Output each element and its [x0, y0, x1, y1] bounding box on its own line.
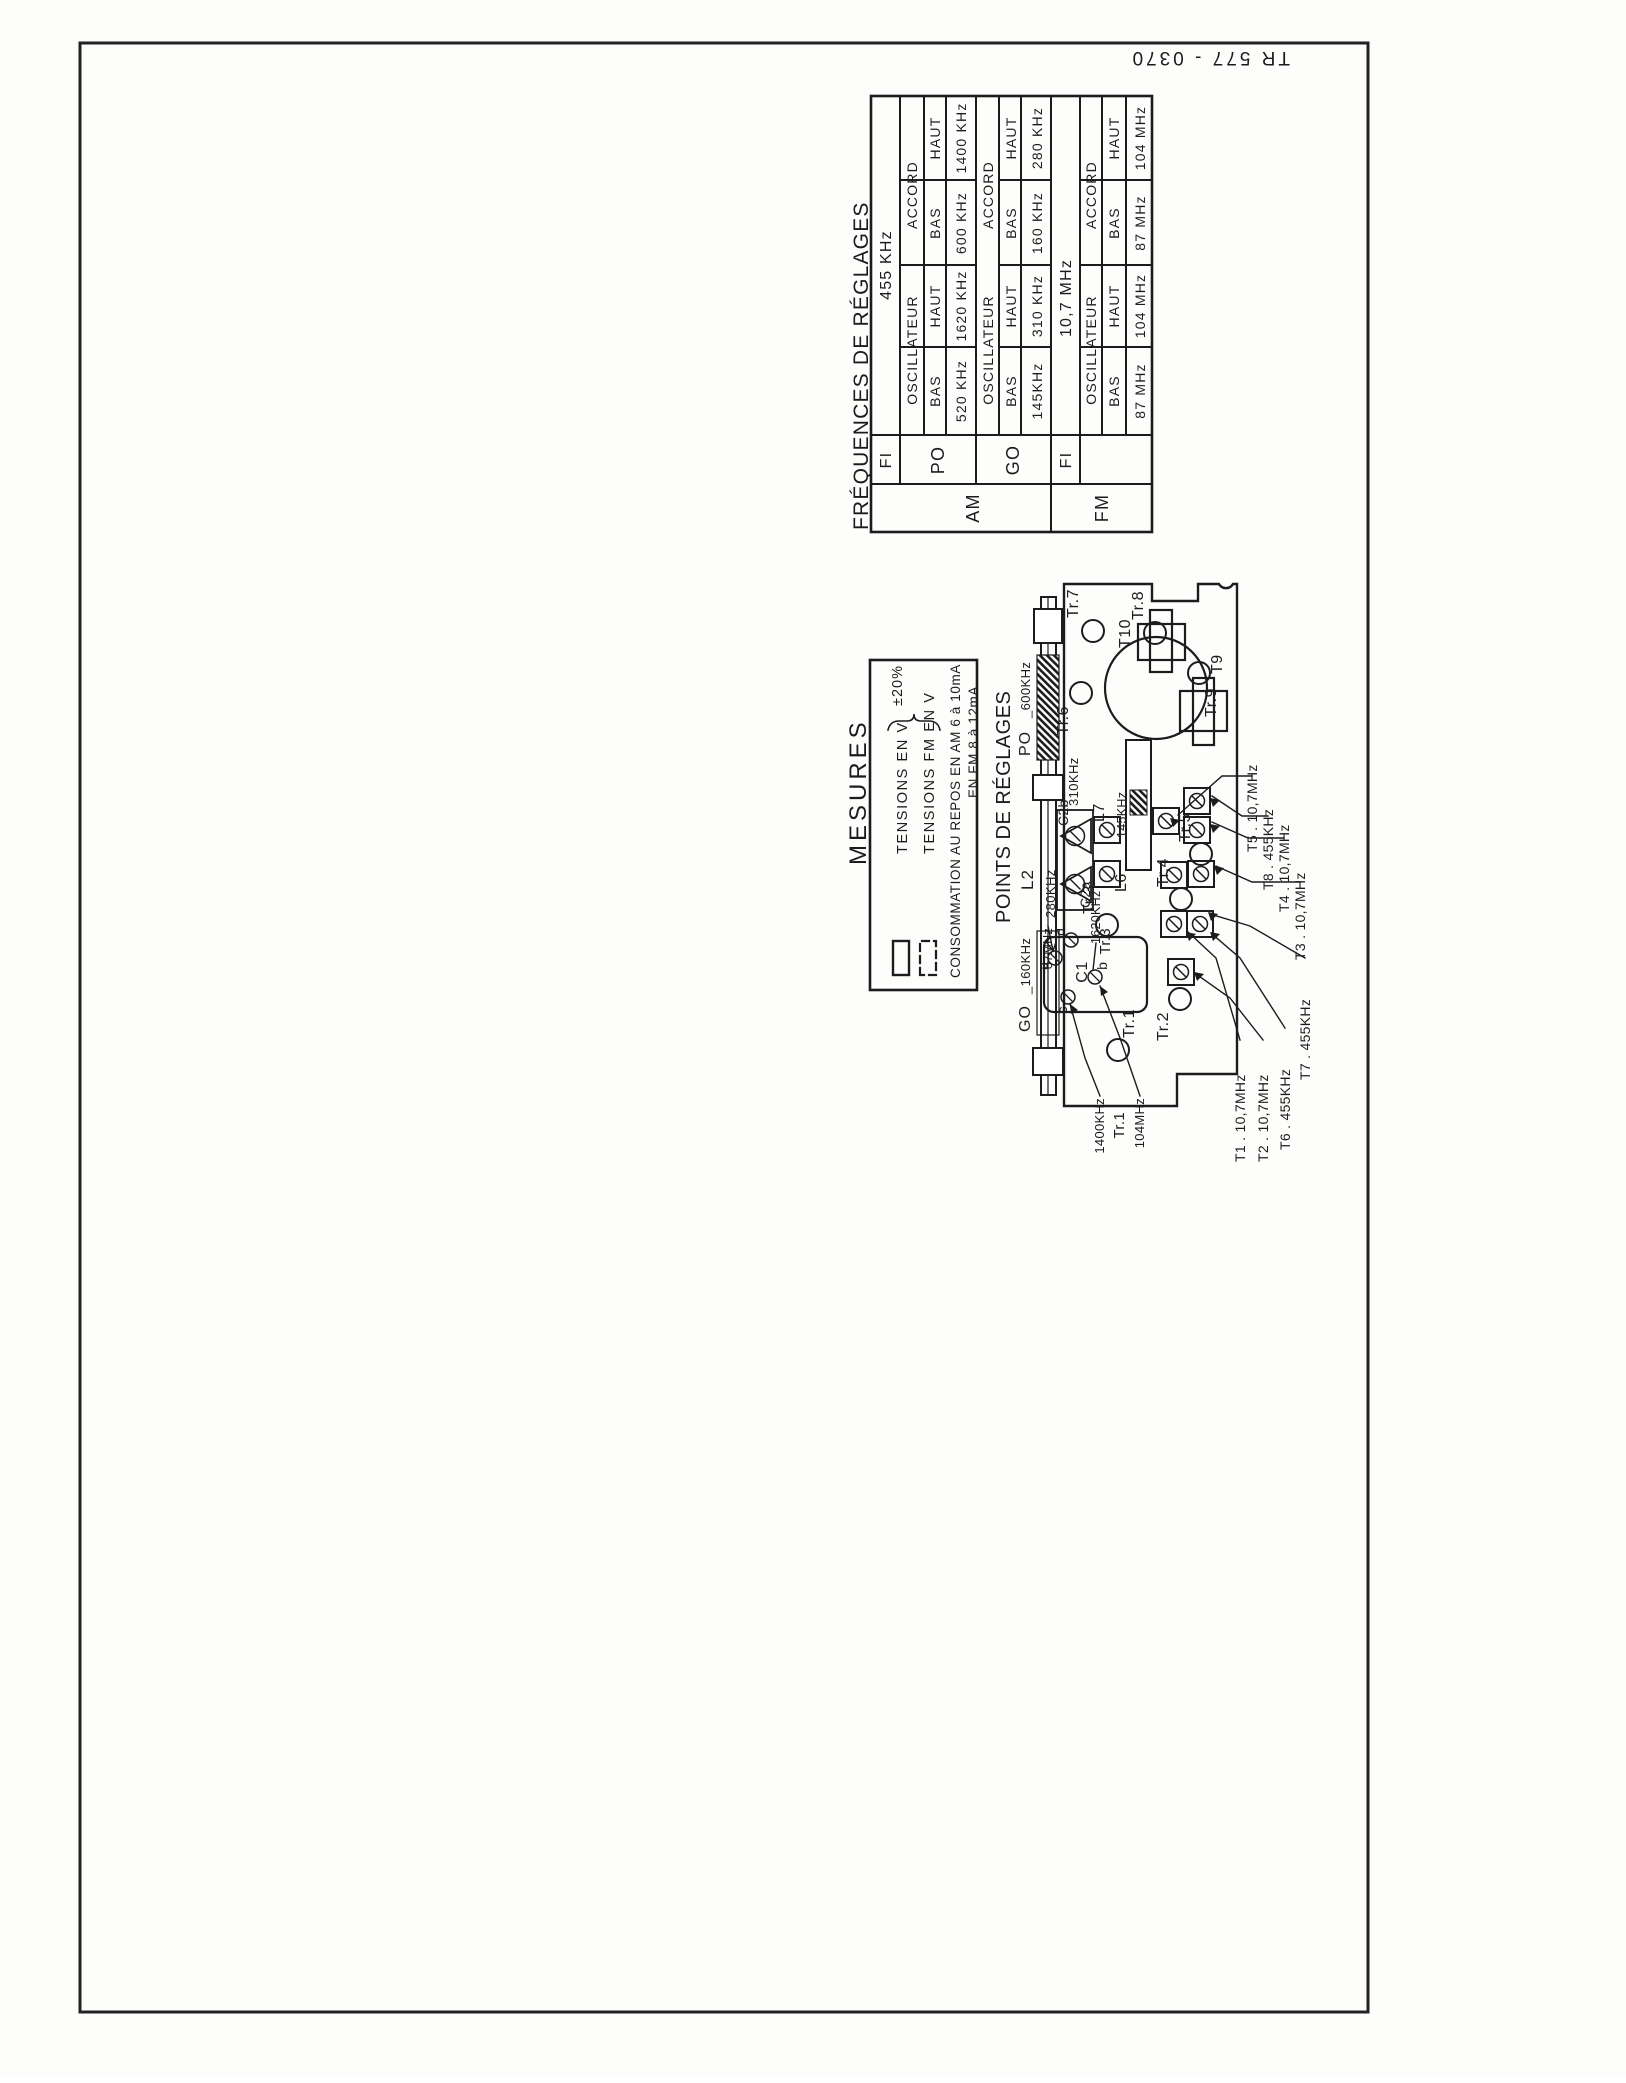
svg-text:T10: T10 [1117, 619, 1134, 648]
pcb 87MHz arrow [1047, 926, 1056, 951]
table line [1080, 346, 1152, 348]
svg-text:_600KHz: _600KHz [1018, 662, 1033, 719]
pcb trimmer T5 [1153, 808, 1179, 834]
table line [998, 96, 1000, 435]
svg-text:1400KHz: 1400KHz [1092, 1098, 1107, 1154]
pcb trimmer C2a [1061, 867, 1091, 901]
table line [975, 96, 977, 484]
table frame [871, 96, 1152, 532]
svg-text:Tr.6: Tr.6 [1055, 706, 1072, 735]
svg-text:_160KHz: _160KHz [1018, 938, 1033, 995]
pcb callout line T2 [1196, 974, 1263, 1040]
svg-text:T7 . 455KHz: T7 . 455KHz [1297, 999, 1313, 1080]
svg-text:Tr.9: Tr.9 [1203, 688, 1220, 717]
legend box [870, 660, 977, 990]
pcb callout line T5 [1178, 776, 1252, 815]
pcb callout line T6 [1212, 934, 1285, 1028]
table line [1080, 179, 1152, 181]
svg-text:T2 . 10,7MHz: T2 . 10,7MHz [1255, 1074, 1271, 1162]
table line [945, 96, 947, 435]
svg-text:HAUT: HAUT [1003, 117, 1019, 160]
legend solid symbol [893, 941, 909, 975]
svg-text:AM: AM [963, 493, 983, 522]
pcb rod coil PO [1037, 655, 1059, 760]
svg-text:TENSIONS FM EN V: TENSIONS FM EN V [922, 691, 938, 854]
svg-text:1620 KHz: 1620 KHz [953, 270, 969, 341]
svg-text:1400 KHz: 1400 KHz [953, 102, 969, 173]
pcb rod clamp [1033, 1048, 1063, 1075]
pcb board outline [1064, 584, 1237, 1106]
svg-text:±20%: ±20% [890, 665, 906, 706]
svg-text:BAS: BAS [1003, 375, 1019, 407]
pcb trimmer T2t [1168, 959, 1194, 985]
legend brace [888, 714, 940, 730]
table line [999, 346, 1051, 348]
pcb tuning rod [1041, 597, 1056, 1095]
pcb trimmer block C1 [1043, 1011, 1045, 1013]
pcb callout arrow T7 [1208, 912, 1218, 921]
table line [900, 346, 976, 348]
svg-text:145KHz: 145KHz [1029, 362, 1045, 419]
svg-text:L2: L2 [1018, 869, 1037, 890]
pcb callout arrow T4 [1210, 824, 1220, 833]
pcb trimmer C1a [1048, 951, 1062, 965]
svg-text:BAS: BAS [927, 375, 943, 407]
svg-text:FRÉQUENCES DE RÉGLAGES: FRÉQUENCES DE RÉGLAGES [850, 201, 873, 530]
pcb callout line T7 [1210, 914, 1305, 958]
svg-text:Tr.7: Tr.7 [1065, 589, 1082, 618]
pcb speaker hole [1105, 637, 1207, 739]
svg-text:FI: FI [878, 452, 895, 469]
pcb 1620 arrow [1093, 943, 1096, 970]
svg-text:160 KHz: 160 KHz [1029, 192, 1045, 254]
pcb trimmer T7 [1187, 911, 1213, 937]
svg-text:87 MHz: 87 MHz [1132, 363, 1148, 418]
table line [899, 96, 901, 484]
svg-text:T1 . 10,7MHz: T1 . 10,7MHz [1232, 1074, 1248, 1162]
pcb dial window [1126, 740, 1151, 870]
pcb rod end [1034, 609, 1062, 643]
pcb trimmer L7 [1094, 817, 1120, 843]
svg-text:TR 577 - 0370: TR 577 - 0370 [1130, 47, 1290, 68]
svg-text:MESURES: MESURES [845, 718, 872, 865]
svg-text:BAS: BAS [927, 207, 943, 239]
pcb hole Tr.6 [1070, 682, 1092, 704]
pcb hole Tr.4 [1170, 888, 1192, 910]
svg-text:Tr.8: Tr.8 [1130, 591, 1147, 620]
table line [923, 96, 925, 435]
pcb trimmer block C1 box [1044, 937, 1147, 1012]
svg-text:T8 . 455KHz: T8 . 455KHz [1260, 809, 1276, 890]
pcb callout line 1400KHz [1070, 1004, 1100, 1096]
table line [900, 264, 976, 266]
svg-text:10,7 MHz: 10,7 MHz [1058, 259, 1075, 337]
svg-text:T9: T9 [1209, 654, 1226, 674]
svg-text:OSCILLATEUR: OSCILLATEUR [1083, 295, 1099, 404]
svg-text:600 KHz: 600 KHz [953, 192, 969, 254]
svg-text:Tr.2: Tr.2 [1155, 1012, 1172, 1041]
svg-text:104 MHz: 104 MHz [1132, 274, 1148, 338]
table line [999, 264, 1051, 266]
pcb callout arrow [1070, 1004, 1078, 1014]
pcb hole Tr.2 [1169, 988, 1191, 1010]
svg-text:T5 . 10,7MHz: T5 . 10,7MHz [1244, 764, 1260, 852]
svg-text:Tr.1: Tr.1 [1121, 1009, 1138, 1038]
table line [1050, 96, 1052, 532]
svg-text:PO: PO [1017, 731, 1034, 756]
svg-text:HAUT: HAUT [1106, 117, 1122, 160]
pcb trimmer C2b [1061, 819, 1091, 853]
svg-text:520 KHz: 520 KHz [953, 360, 969, 422]
pcb trimmer Tr5a [1161, 862, 1187, 888]
table line [900, 179, 976, 181]
legend dashed symbol [920, 941, 936, 975]
svg-text:TENSIONS EN V: TENSIONS EN V [895, 721, 911, 854]
pcb rod clamp [1033, 775, 1063, 800]
table line [871, 483, 1152, 485]
svg-text:310KHz: 310KHz [1066, 757, 1081, 806]
svg-text:HAUT: HAUT [927, 285, 943, 328]
svg-text:T6 . 455KHz: T6 . 455KHz [1277, 1069, 1293, 1150]
table line [871, 434, 1152, 436]
pcb callout arrow T8 [1210, 798, 1220, 807]
svg-text:c: c [1054, 1007, 1070, 1014]
pcb callout line 104MHz [1100, 986, 1140, 1096]
svg-text:FI: FI [1058, 452, 1075, 469]
pcb trimmer C1c [1061, 990, 1075, 1004]
table line [1020, 96, 1022, 435]
svg-text:GO: GO [1017, 1005, 1034, 1032]
pcb rod line [1047, 597, 1049, 1095]
svg-text:87 MHz: 87 MHz [1132, 195, 1148, 250]
pcb callout arrow T2 [1194, 972, 1204, 981]
svg-text:FM: FM [1092, 494, 1112, 522]
svg-text:455 KHz: 455 KHz [878, 230, 895, 300]
svg-text:OSCILLATEUR: OSCILLATEUR [980, 295, 996, 404]
svg-text:BAS: BAS [1003, 207, 1019, 239]
pcb callout line T4 [1212, 822, 1284, 838]
pcb hole Tr.7 [1082, 620, 1104, 642]
svg-text:EN FM 8 à 12mA: EN FM 8 à 12mA [966, 686, 981, 798]
svg-text:CONSOMMATION AU REPOS EN AM 6: CONSOMMATION AU REPOS EN AM 6 à 10mA [948, 664, 963, 978]
svg-text:ACCORD: ACCORD [980, 161, 996, 229]
pcb callout arrow T3 [1214, 866, 1224, 875]
svg-text:C2b: C2b [1055, 799, 1071, 826]
svg-text:280 KHz: 280 KHz [1029, 107, 1045, 169]
pcb transformer T9 [1180, 691, 1227, 731]
pcb hole Tr.3 [1096, 914, 1118, 936]
pcb hole Tr.9 [1188, 662, 1210, 684]
svg-text:L7: L7 [1091, 803, 1108, 822]
pcb callout arrow T1 [1186, 932, 1196, 941]
svg-text:ACCORD: ACCORD [904, 161, 920, 229]
pcb callout line T8 [1212, 796, 1268, 816]
pcb rod coil GO [1037, 931, 1059, 1035]
pcb trimmer L6 [1094, 861, 1120, 887]
pcb trimmer C1b [1088, 970, 1102, 984]
pcb hole Tr.8 [1144, 622, 1166, 644]
pcb callout arrow T5 [1170, 818, 1180, 827]
pcb callout arrow T6 [1210, 932, 1220, 941]
pcb hole Tr.1 [1107, 1039, 1129, 1061]
svg-text:BAS: BAS [1106, 375, 1122, 407]
svg-text:HAUT: HAUT [1106, 285, 1122, 328]
svg-text:GO: GO [1003, 445, 1023, 475]
pcb trimmer T8 [1184, 788, 1210, 814]
pcb trimmer C1d [1064, 933, 1078, 947]
table line [999, 179, 1051, 181]
pcb trimmer Tr4a [1161, 911, 1187, 937]
svg-text:b: b [1094, 962, 1110, 970]
pcb callout arrow [1100, 986, 1108, 996]
pcb hole Tr.5 [1190, 843, 1212, 865]
pcb callout line T3 [1216, 866, 1300, 882]
svg-text:HAUT: HAUT [1003, 285, 1019, 328]
pcb transformer T10 [1138, 624, 1185, 660]
svg-text:Tr.1: Tr.1 [1111, 1112, 1128, 1138]
svg-text:POINTS DE RÉGLAGES: POINTS DE RÉGLAGES [992, 691, 1015, 923]
svg-text:1620KHz: 1620KHz [1089, 890, 1103, 944]
pcb trimmer T4 [1184, 817, 1210, 843]
pcb dial cursor [1130, 790, 1147, 815]
svg-text:280KHz: 280KHz [1043, 869, 1058, 918]
svg-text:ACCORD: ACCORD [1083, 161, 1099, 229]
svg-text:104 MHz: 104 MHz [1132, 106, 1148, 170]
svg-text:310 KHz: 310 KHz [1029, 275, 1045, 337]
table line [1079, 96, 1081, 484]
svg-text:PO: PO [928, 446, 948, 474]
svg-text:HAUT: HAUT [927, 117, 943, 160]
svg-text:OSCILLATEUR: OSCILLATEUR [904, 295, 920, 404]
table line [1101, 96, 1103, 435]
table line [1125, 96, 1127, 435]
pcb trimmer box [1057, 810, 1093, 910]
svg-text:BAS: BAS [1106, 207, 1122, 239]
pcb trimmer T3 [1188, 861, 1214, 887]
svg-text:104MHz: 104MHz [1132, 1098, 1147, 1148]
svg-text:T3 . 10,7MHz: T3 . 10,7MHz [1292, 872, 1308, 960]
pcb callout line T1 [1188, 932, 1240, 1040]
table line [1080, 264, 1152, 266]
border frame [80, 43, 1368, 2012]
svg-text:L6: L6 [1113, 873, 1130, 892]
